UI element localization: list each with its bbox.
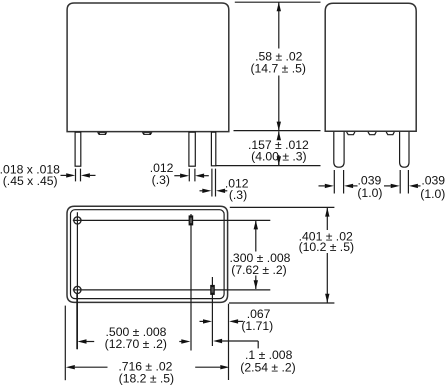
pin row line top <box>73 219 270 221</box>
knockout for .58 text <box>251 49 308 76</box>
svg-text:(12.70 ± .2): (12.70 ± .2) <box>105 337 167 351</box>
.157 dimension arrowheads <box>277 131 281 165</box>
body height dimension line .58 <box>277 2 281 130</box>
.1 dimension leader arrow with hook <box>213 339 258 349</box>
pin 2 width dimension arrows <box>174 174 209 178</box>
svg-text:(.3): (.3) <box>152 173 170 187</box>
front view pin 3 <box>211 132 215 166</box>
svg-text:(1.0): (1.0) <box>420 187 445 201</box>
svg-text:(7.62 ± .2): (7.62 ± .2) <box>231 263 286 277</box>
relay body side view <box>325 3 416 131</box>
height dim bottom extension line (body bottom level) <box>234 130 321 132</box>
knockout for .300 text <box>230 252 292 276</box>
svg-text:(1.0): (1.0) <box>357 186 382 200</box>
front view pin 1 <box>75 132 81 166</box>
svg-text:(10.2 ± .5): (10.2 ± .5) <box>299 240 354 254</box>
svg-text:(18.2 ± .5): (18.2 ± .5) <box>119 371 174 385</box>
side view bottom notch 2 <box>368 132 376 135</box>
side pin right dimension arrows <box>384 184 421 188</box>
bottom view hole bottom-left <box>74 286 81 293</box>
side view bottom notch 1 <box>347 132 355 135</box>
bottom view inner outline <box>71 210 225 299</box>
extension line outer left (.716) <box>64 306 66 381</box>
knockout for .401 text <box>298 230 355 253</box>
pin 1 width dimension arrows <box>61 173 96 177</box>
pin column centerline at .1 offset <box>211 277 213 346</box>
svg-text:(2.54 ± .2): (2.54 ± .2) <box>240 361 295 375</box>
front view bottom notch 2 <box>142 132 153 135</box>
relay body front view <box>67 3 229 132</box>
bottom view height dimension line .401 <box>325 208 329 303</box>
bottom view pin pad top <box>189 215 194 225</box>
pin length dimension line .157 <box>278 131 280 165</box>
knockout for .157 text <box>248 139 309 163</box>
side pin left extension lines <box>334 170 343 194</box>
pin 2 extension lines <box>189 169 195 182</box>
side pin right extension lines <box>400 170 408 194</box>
svg-text:.039: .039 <box>421 174 445 188</box>
height dim top extension line <box>235 1 321 3</box>
.716 dimension arrows <box>66 365 230 369</box>
front view pin 2 <box>189 132 195 166</box>
bottom view pin pad bottom <box>210 285 215 295</box>
pin 1 extension lines <box>76 169 81 182</box>
svg-text:(1.71): (1.71) <box>241 319 273 333</box>
extension line left pin column (.500) <box>76 294 78 350</box>
bottom view hole top-left <box>74 217 81 224</box>
svg-text:(14.7 ± .5): (14.7 ± .5) <box>250 62 305 76</box>
bottom view height dim extension top <box>230 206 335 208</box>
side pin left dimension arrows <box>319 184 358 188</box>
svg-text:(4.00 ± .3): (4.00 ± .3) <box>251 150 306 164</box>
side view pin left <box>334 132 344 167</box>
pin 3 width dimension arrows <box>200 189 228 193</box>
svg-text:(.3): (.3) <box>229 188 247 202</box>
bottom view height dim extension bottom <box>229 302 334 304</box>
pin row line bottom <box>73 289 270 291</box>
.067 dimension arrows <box>200 319 244 323</box>
extension line outer right (.067/.716) <box>228 304 230 380</box>
side view bottom notch 3 <box>386 132 394 135</box>
pin column centerline at .500 <box>190 214 192 351</box>
bottom view outer outline <box>67 206 228 302</box>
pin tip level extension line <box>216 165 321 167</box>
.500 dimension arrows <box>78 339 191 343</box>
side view pin right <box>400 132 409 167</box>
front view bottom notch 1 <box>97 132 107 135</box>
pin 3 extension lines <box>212 169 216 197</box>
pin row spacing dimension line .300 <box>254 220 258 289</box>
left pin column centerline <box>76 212 78 349</box>
svg-text:(.45 x .45): (.45 x .45) <box>3 174 58 188</box>
